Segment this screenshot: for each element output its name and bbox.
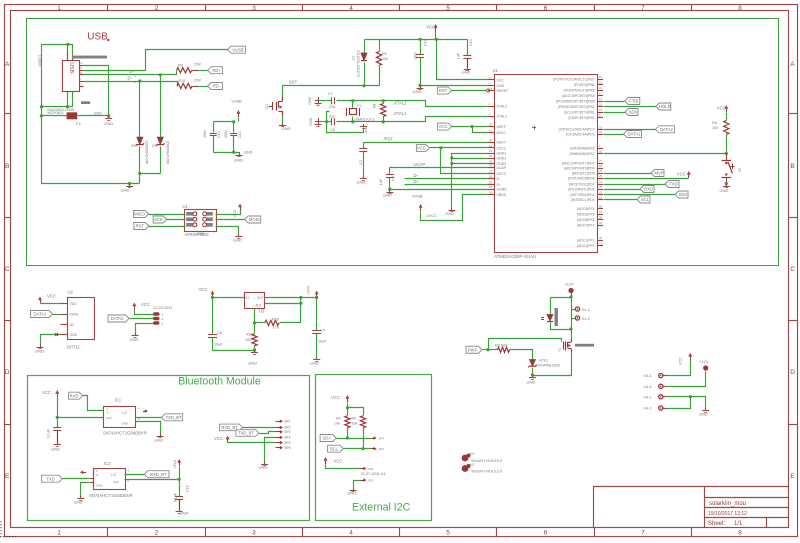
net flag TXD_BT bbox=[162, 414, 183, 421]
label C5 bbox=[359, 160, 363, 165]
svg-text:(INT1/SDA)PD1: (INT1/SDA)PD1 bbox=[570, 193, 594, 197]
wire U3 out2 bbox=[265, 303, 301, 305]
svg-text:SCK: SCK bbox=[154, 217, 163, 222]
label ATMEGA328P bbox=[494, 254, 536, 259]
svg-text:1: 1 bbox=[57, 529, 61, 536]
svg-text:100n: 100n bbox=[224, 130, 228, 138]
svg-text:1uF: 1uF bbox=[457, 52, 461, 59]
power VCC i2c2 bbox=[324, 457, 328, 464]
fuse F2 bbox=[67, 112, 78, 119]
svg-text:4: 4 bbox=[349, 529, 353, 536]
svg-text:(ICP1/ADC8)PD4: (ICP1/ADC8)PD4 bbox=[568, 176, 594, 180]
svg-text:AREF: AREF bbox=[497, 125, 506, 129]
svg-text:21: 21 bbox=[599, 180, 602, 184]
svg-text:U3: U3 bbox=[259, 309, 265, 314]
wire x4-1 bbox=[663, 397, 706, 409]
wire to TXD flag bbox=[604, 184, 666, 186]
wire MOSI bbox=[216, 219, 245, 221]
wire source to gnd bbox=[533, 352, 572, 376]
svg-text:+12V: +12V bbox=[699, 359, 709, 364]
svg-text:RESET: RESET bbox=[497, 89, 510, 93]
wire F2 left bbox=[42, 115, 67, 117]
junction bbox=[107, 114, 110, 117]
svg-text:GND: GND bbox=[104, 121, 113, 126]
wire GND to MCU bbox=[421, 85, 489, 87]
label IC2 bbox=[104, 461, 111, 466]
label C7b bbox=[318, 329, 327, 344]
net flag PWF bbox=[466, 346, 482, 353]
ground bbox=[51, 442, 61, 452]
wire ic1 gnd bbox=[136, 422, 161, 434]
frame row labels A-E bbox=[5, 61, 796, 480]
wire ic2 gnd bbox=[81, 483, 90, 497]
section title USB bbox=[87, 32, 109, 43]
svg-text:↓XTAL1: ↓XTAL1 bbox=[392, 111, 407, 116]
svg-text:(PCINT7/OC0A/OC1C)PB7: (PCINT7/OC0A/OC1C)PB7 bbox=[553, 77, 594, 81]
svg-text:R4: R4 bbox=[336, 417, 341, 421]
wire zener Z1 drop bbox=[139, 82, 141, 184]
svg-text:G: G bbox=[81, 62, 83, 65]
svg-text:10: 10 bbox=[599, 86, 602, 90]
wire XTAL2 net bbox=[319, 101, 489, 107]
connector pad X4-2 bbox=[644, 406, 663, 411]
svg-text:22-27-2041-04: 22-27-2041-04 bbox=[361, 472, 386, 476]
ground bbox=[154, 434, 163, 443]
label UCAP bbox=[414, 162, 426, 167]
svg-text:D: D bbox=[5, 369, 10, 376]
svg-text:19: 19 bbox=[599, 191, 602, 195]
junction bbox=[40, 114, 43, 117]
wire USB VBUS to VUSB flag bbox=[84, 50, 228, 71]
label U4 bbox=[183, 204, 189, 209]
wire to SDA flag bbox=[604, 194, 676, 196]
wire GND pad3 bbox=[136, 324, 154, 334]
svg-text:VCC: VCC bbox=[717, 106, 726, 111]
capacitor C5 100n bbox=[359, 143, 367, 177]
svg-text:27: 27 bbox=[489, 164, 492, 168]
svg-text:BP5: BP5 bbox=[285, 441, 291, 445]
wire RST to MCU bbox=[452, 89, 490, 92]
connector pad X4-3 bbox=[644, 384, 663, 389]
label UVCC net bbox=[426, 214, 437, 218]
wire USB shield to top rail bbox=[42, 45, 73, 56]
ground C7 side bbox=[308, 96, 321, 105]
junction bbox=[725, 152, 728, 155]
net flag DATA1 dht bbox=[31, 311, 53, 318]
wire D7 top bbox=[364, 40, 366, 54]
junction bbox=[178, 478, 181, 481]
svg-text:15: 15 bbox=[599, 108, 602, 112]
label U1 bbox=[493, 68, 499, 73]
svg-text:(PDO/MISO/PCINT3)PB3: (PDO/MISO/PCINT3)PB3 bbox=[556, 99, 595, 103]
svg-text:100n: 100n bbox=[414, 52, 418, 60]
wire ADJ drop bbox=[254, 309, 256, 323]
net flag MOSI bbox=[245, 216, 261, 223]
wire ic2 vcc 3v3 bbox=[125, 479, 180, 481]
mount hole H2 bbox=[462, 463, 502, 474]
svg-text:RD-: RD- bbox=[213, 84, 221, 89]
svg-text:MOSI: MOSI bbox=[249, 217, 260, 222]
wire XTAL1 net bbox=[319, 117, 489, 122]
svg-text:25: 25 bbox=[599, 169, 602, 173]
wire reset net long bbox=[604, 153, 727, 155]
svg-text:BP4: BP4 bbox=[285, 436, 291, 440]
wire PWF bbox=[483, 349, 498, 351]
svg-text:(ICP3/CLK0/OC4A)PC7: (ICP3/CLK0/OC4A)PC7 bbox=[559, 128, 595, 132]
junction bbox=[439, 146, 442, 149]
svg-text:14: 14 bbox=[489, 144, 492, 148]
junction bbox=[232, 151, 235, 154]
svg-text:D: D bbox=[81, 72, 83, 75]
power VUSB2 bbox=[412, 195, 423, 212]
svg-text:VCC: VCC bbox=[113, 480, 120, 484]
net flag SCK bbox=[625, 109, 638, 116]
junction bbox=[128, 182, 131, 185]
USB connector shield pins bbox=[68, 50, 73, 60]
svg-text:27: 27 bbox=[599, 159, 602, 163]
wire txd ic2 bbox=[63, 478, 90, 480]
svg-text:32: 32 bbox=[599, 125, 602, 129]
svg-text:(ADC7)PF7: (ADC7)PF7 bbox=[577, 223, 595, 227]
wire UCAP net bbox=[390, 168, 489, 175]
resistor R20 170 bbox=[265, 320, 279, 325]
wire DATA1 dht bbox=[53, 314, 61, 316]
svg-text:1/1: 1/1 bbox=[734, 521, 743, 527]
title block bbox=[593, 487, 789, 528]
label R21 bbox=[245, 333, 253, 343]
power VCC x4 bbox=[688, 353, 692, 360]
svg-text:(ADC1)PF1: (ADC1)PF1 bbox=[577, 238, 595, 242]
svg-text:8: 8 bbox=[738, 529, 742, 536]
label 3v3 ic2 bbox=[173, 460, 177, 469]
svg-text:1P2: 1P2 bbox=[368, 467, 374, 471]
net flag FTDI bbox=[625, 98, 640, 105]
junction bbox=[66, 43, 69, 46]
svg-text:25: 25 bbox=[599, 174, 602, 178]
svg-text:18: 18 bbox=[599, 196, 602, 200]
svg-text:T1: T1 bbox=[558, 348, 562, 352]
svg-text:GND: GND bbox=[180, 511, 189, 516]
label U3 bbox=[259, 309, 265, 314]
svg-text:VCC: VCC bbox=[417, 146, 426, 151]
svg-text:C16: C16 bbox=[186, 485, 190, 492]
wire zener bottoms bbox=[140, 173, 161, 175]
svg-text:D: D bbox=[790, 369, 795, 376]
wire SCK bbox=[167, 219, 186, 221]
IC2 body bbox=[94, 469, 126, 490]
svg-text:GND: GND bbox=[121, 188, 130, 193]
wire to R21 bbox=[254, 323, 256, 334]
wire USB GND pin bbox=[84, 66, 109, 116]
label IC1 bbox=[115, 398, 122, 403]
svg-text:(ADC5)PF5: (ADC5)PF5 bbox=[577, 212, 595, 216]
wire vcc ic1 bbox=[58, 398, 104, 418]
wire to RXD flag bbox=[604, 189, 641, 191]
svg-text:X4-1: X4-1 bbox=[644, 395, 652, 399]
svg-text:A: A bbox=[5, 61, 10, 68]
svg-text:JZ0603HC-05F: JZ0603HC-05F bbox=[145, 140, 149, 165]
net flag RXD ic1 bbox=[69, 392, 83, 399]
switch S1 bbox=[722, 154, 735, 184]
power VCC right bbox=[677, 171, 691, 178]
svg-text:C: C bbox=[5, 266, 10, 273]
svg-text:U1: U1 bbox=[493, 68, 499, 73]
svg-text:USB↓: USB↓ bbox=[68, 62, 74, 75]
svg-text:(PCINT6)PB6: (PCINT6)PB6 bbox=[574, 83, 595, 87]
svg-text:(SCLK/PCINT1)PB1: (SCLK/PCINT1)PB1 bbox=[564, 110, 595, 114]
svg-text:PWF: PWF bbox=[468, 347, 478, 352]
junction bbox=[253, 348, 256, 351]
wire zener bottom bbox=[532, 368, 534, 376]
wire GND run bbox=[42, 183, 140, 185]
junction bbox=[569, 295, 572, 298]
wire U3 out1 bbox=[265, 297, 317, 299]
svg-text:GND: GND bbox=[35, 349, 44, 354]
wire rxd ic1 bbox=[83, 396, 104, 411]
wire to VCC arrow bbox=[604, 178, 689, 180]
junction bbox=[450, 156, 453, 165]
junction bbox=[531, 373, 534, 376]
ground bbox=[279, 123, 291, 132]
svg-text:10k: 10k bbox=[382, 57, 388, 61]
IC1 internals bbox=[106, 407, 140, 426]
svg-text:10k: 10k bbox=[334, 422, 340, 426]
net flag DATA2 bbox=[655, 126, 674, 133]
wire D- to MCU bbox=[405, 178, 489, 180]
svg-text:D-: D- bbox=[128, 75, 133, 80]
svg-text:(INT2/RXD1)PD2: (INT2/RXD1)PD2 bbox=[568, 187, 594, 191]
relay armature bar bbox=[555, 308, 558, 326]
ground bbox=[259, 461, 269, 469]
wire zener Z2 drop bbox=[160, 75, 162, 174]
svg-text:6: 6 bbox=[544, 529, 548, 536]
svg-text:XTAL1: XTAL1 bbox=[497, 114, 507, 118]
i2c pin vcc bbox=[361, 467, 374, 471]
svg-text:C8: C8 bbox=[217, 331, 222, 335]
label Z2 bbox=[152, 140, 170, 165]
svg-text:VCC: VCC bbox=[331, 395, 340, 400]
svg-text:B: B bbox=[790, 163, 794, 170]
svg-text:CD1206-S01575: CD1206-S01575 bbox=[356, 50, 360, 77]
svg-text:1M: 1M bbox=[373, 104, 377, 109]
svg-text:↓XTAL2: ↓XTAL2 bbox=[392, 100, 407, 105]
svg-text:C4: C4 bbox=[320, 329, 325, 333]
svg-text:A: A bbox=[790, 61, 795, 68]
svg-text:MOUNT-HOLE3.0: MOUNT-HOLE3.0 bbox=[472, 459, 503, 463]
ground bbox=[104, 116, 113, 126]
svg-text:33: 33 bbox=[599, 150, 602, 154]
svg-text:15: 15 bbox=[489, 149, 492, 153]
junction bbox=[138, 172, 141, 175]
junction bbox=[299, 302, 302, 305]
svg-text:SN74AHCT1G04DBVR: SN74AHCT1G04DBVR bbox=[103, 431, 147, 436]
wire rxd_bt bbox=[125, 474, 145, 476]
net flag VUSB bbox=[228, 46, 246, 53]
wire VCC rail y39 bbox=[365, 39, 468, 41]
svg-text:41: 41 bbox=[489, 129, 492, 133]
svg-text:DATA: DATA bbox=[70, 312, 79, 316]
junction bbox=[362, 84, 365, 87]
power +12V sym bbox=[564, 282, 574, 298]
svg-text:C10: C10 bbox=[469, 39, 473, 46]
MCU origin cross bbox=[532, 126, 536, 130]
svg-text:VCC: VCC bbox=[199, 287, 208, 292]
net flag DATA1 bbox=[624, 131, 642, 138]
section box External I2C bbox=[316, 375, 432, 521]
capacitor C8b 10uF bbox=[208, 298, 217, 351]
net flag RD+ bbox=[208, 67, 223, 74]
wire txd_bt bbox=[136, 417, 162, 419]
ground bbox=[720, 184, 730, 193]
label C10 bbox=[457, 39, 473, 59]
svg-text:R20: R20 bbox=[272, 317, 279, 321]
svg-text:GND: GND bbox=[308, 96, 312, 104]
net flag TXD ic2 bbox=[42, 475, 63, 482]
wire gate path bbox=[489, 339, 562, 350]
svg-text:VCC: VCC bbox=[214, 436, 223, 441]
svg-text:D+: D+ bbox=[414, 179, 420, 184]
title block text solarklin_mou bbox=[709, 501, 746, 507]
resistor R15 22R bbox=[177, 83, 208, 88]
junction bbox=[569, 327, 572, 330]
U3 pin names bbox=[246, 296, 264, 307]
wire R21 bottom bbox=[254, 346, 256, 351]
svg-text:E: E bbox=[5, 473, 10, 480]
label D- bbox=[128, 75, 137, 84]
wire DATA2 pad2 bbox=[130, 318, 154, 320]
wire UVCC branch bbox=[441, 148, 489, 174]
svg-text:DATA1: DATA1 bbox=[34, 312, 48, 317]
net flag VCC bbox=[438, 123, 452, 130]
label VCC ic1 bbox=[42, 390, 51, 395]
net flag RXD_BT conn bbox=[220, 424, 243, 431]
ground bbox=[347, 488, 356, 496]
net flag DATA2 conn bbox=[108, 315, 129, 322]
svg-text:+12V: +12V bbox=[564, 282, 574, 287]
wire to mosfet drain bbox=[571, 330, 573, 340]
svg-text:22p: 22p bbox=[329, 115, 335, 119]
mosfet T1 bbox=[564, 339, 572, 352]
DHT11 pins bbox=[61, 302, 79, 337]
power VCC main bbox=[426, 24, 438, 31]
label 22-27 conn bbox=[361, 472, 386, 476]
svg-text:GND: GND bbox=[720, 188, 729, 193]
svg-text:2: 2 bbox=[155, 5, 159, 12]
USB connector X2 body bbox=[63, 61, 80, 92]
svg-text:22p: 22p bbox=[329, 105, 335, 109]
wire MISO bbox=[149, 214, 186, 216]
svg-text:3: 3 bbox=[252, 529, 256, 536]
resistor R5 10k bbox=[360, 416, 365, 428]
net flag SDA i2c bbox=[320, 435, 336, 442]
wire Q1 drop bbox=[282, 86, 284, 97]
svg-text:(ADC10/PCINT7)PD7: (ADC10/PCINT7)PD7 bbox=[562, 161, 595, 165]
junction bbox=[486, 348, 489, 351]
svg-text:0.1uF: 0.1uF bbox=[47, 428, 51, 438]
wire VBUS net bbox=[421, 195, 489, 221]
wire scl bbox=[344, 448, 371, 450]
svg-text:D+: D+ bbox=[497, 183, 502, 187]
svg-text:X4-4: X4-4 bbox=[644, 374, 652, 378]
svg-text:XTAL2: XTAL2 bbox=[497, 104, 507, 108]
svg-text:29: 29 bbox=[489, 181, 492, 185]
svg-text:GND: GND bbox=[413, 89, 422, 94]
net flag MVP bbox=[651, 170, 664, 177]
svg-text:MISO: MISO bbox=[134, 212, 145, 217]
wire left vertical L1 net bbox=[41, 45, 43, 184]
svg-text:4: 4 bbox=[349, 5, 353, 12]
svg-text:40: 40 bbox=[599, 236, 602, 240]
svg-text:C5: C5 bbox=[359, 160, 363, 165]
wire R4 bottom bbox=[347, 428, 349, 439]
wire bp2 bbox=[243, 427, 276, 429]
svg-text:R15: R15 bbox=[178, 78, 186, 83]
mount hole H1 bbox=[462, 452, 502, 463]
svg-text:Y1: Y1 bbox=[357, 104, 362, 108]
power VCC data2 bbox=[132, 303, 136, 310]
svg-text:VCC: VCC bbox=[497, 78, 505, 82]
ground bbox=[130, 333, 139, 342]
svg-text:6: 6 bbox=[544, 5, 548, 12]
i2c pin scl bbox=[371, 447, 384, 451]
ground GND bbox=[121, 184, 133, 193]
svg-text:R9: R9 bbox=[178, 62, 184, 67]
svg-text:UCAP: UCAP bbox=[497, 166, 507, 170]
wire ISP VCC bbox=[216, 211, 241, 215]
svg-text:X1-1: X1-1 bbox=[582, 307, 591, 312]
label SN74 ic1 bbox=[103, 431, 147, 436]
svg-text:USB: USB bbox=[87, 32, 108, 43]
wire 3v3 stem bbox=[179, 467, 181, 480]
net flag RD- bbox=[208, 83, 223, 90]
wire crystal branch bbox=[352, 101, 354, 122]
junction bbox=[388, 188, 391, 191]
svg-text:VCC: VCC bbox=[42, 390, 51, 395]
svg-text:U1: U1 bbox=[183, 204, 189, 209]
svg-text:←ADJ: ←ADJ bbox=[252, 303, 262, 307]
wire bp4 gnd bbox=[265, 438, 276, 462]
svg-text:ADC7: ADC7 bbox=[497, 141, 506, 145]
ISP header U4 body bbox=[185, 210, 217, 232]
svg-text:←OUT: ←OUT bbox=[254, 296, 264, 300]
svg-text:HT01: HT01 bbox=[539, 359, 548, 363]
label T1 bbox=[558, 348, 562, 352]
wire UGND net bbox=[390, 189, 489, 191]
svg-text:C14: C14 bbox=[424, 39, 428, 46]
svg-text:solarklin_mou: solarklin_mou bbox=[709, 501, 746, 507]
svg-text:DATA2: DATA2 bbox=[111, 316, 125, 321]
svg-text:GND: GND bbox=[462, 70, 471, 75]
ground bbox=[462, 67, 471, 75]
svg-text:24: 24 bbox=[489, 87, 492, 91]
label GND pin bbox=[197, 232, 205, 236]
wire to FTDI flag bbox=[604, 101, 625, 103]
svg-text:31: 31 bbox=[599, 130, 602, 134]
svg-text:RXD: RXD bbox=[644, 187, 653, 192]
ground bbox=[699, 408, 709, 417]
svg-text:40: 40 bbox=[489, 138, 492, 142]
label C8b bbox=[214, 331, 223, 347]
label D+ bbox=[414, 179, 420, 184]
svg-text:(ADC9/PCINT6)PD6: (ADC9/PCINT6)PD6 bbox=[564, 166, 595, 170]
svg-text:Z2: Z2 bbox=[152, 143, 157, 148]
svg-text:SN74AHCT1G04DBVR: SN74AHCT1G04DBVR bbox=[89, 493, 133, 498]
label VCC bt bbox=[214, 436, 223, 441]
svg-text:SDA: SDA bbox=[322, 436, 331, 441]
label 1M bbox=[373, 104, 377, 109]
svg-text:GND: GND bbox=[248, 361, 257, 366]
svg-text:UCAP: UCAP bbox=[414, 162, 426, 167]
